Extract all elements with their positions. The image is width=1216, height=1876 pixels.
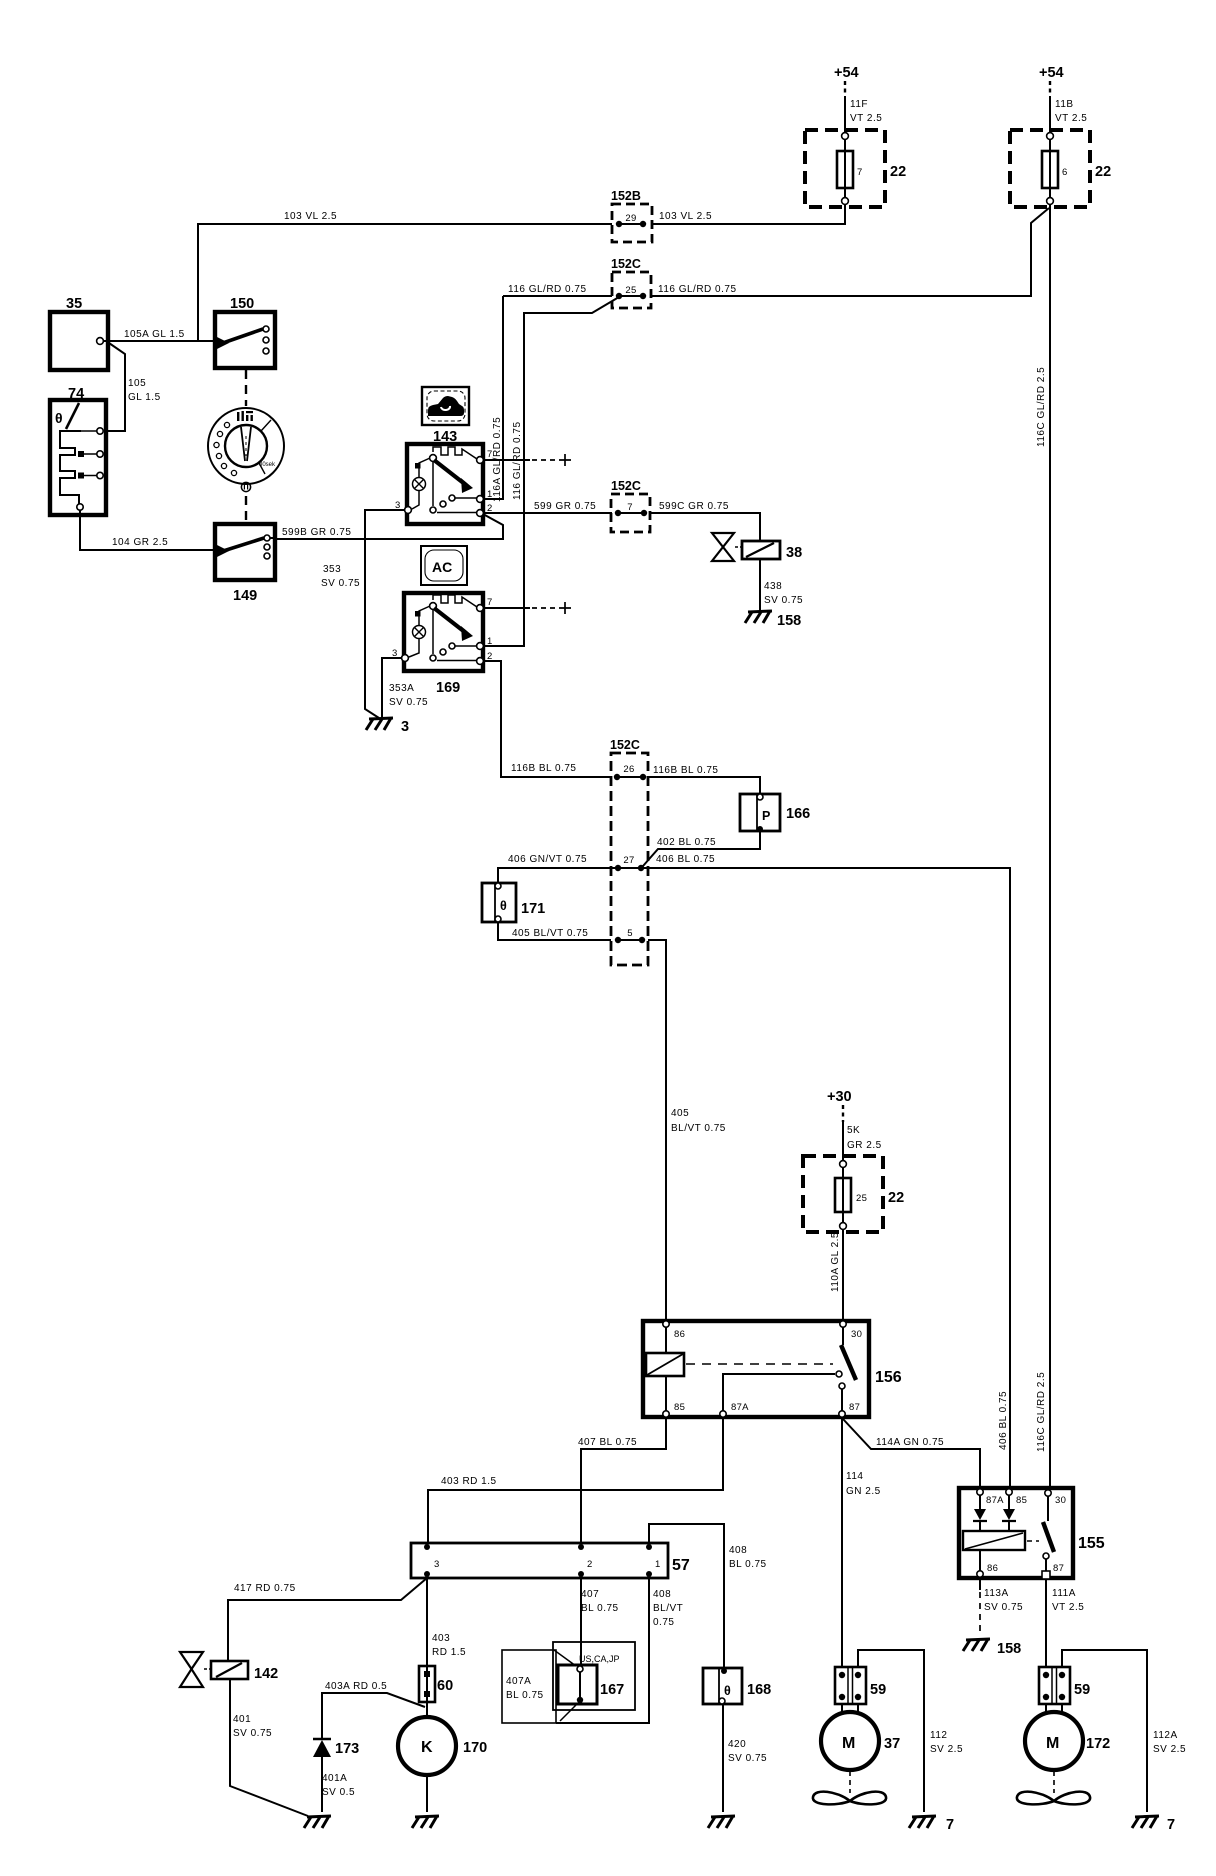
svg-text:+54: +54 bbox=[1039, 65, 1064, 81]
svg-text:87A: 87A bbox=[731, 1402, 749, 1413]
svg-text:407: 407 bbox=[581, 1589, 599, 1600]
ground 7 (right) bbox=[1132, 1816, 1175, 1833]
svg-text:405 BL/VT 0.75: 405 BL/VT 0.75 bbox=[512, 928, 588, 939]
fuse 60 bbox=[419, 1666, 453, 1702]
sensor 74 (rheostat with taps) bbox=[50, 386, 106, 515]
svg-text:401: 401 bbox=[233, 1714, 251, 1725]
connector 152C pins 26/27/5 bbox=[610, 738, 648, 965]
wire 599 GR 0.75 (143 pin 2 to 152C-7) bbox=[484, 501, 612, 513]
wire 408 BL/VT 0.75 (57 pin 1 down) bbox=[556, 1578, 683, 1723]
svg-text:57: 57 bbox=[672, 1557, 690, 1574]
wire 116A GL/RD 0.75 (to 143 pin 1) bbox=[484, 296, 503, 502]
svg-text:11B: 11B bbox=[1055, 99, 1074, 110]
switch 150 bbox=[215, 296, 275, 368]
wire 116 GL/RD 0.75 (branch to 152C-25) bbox=[651, 208, 1049, 296]
svg-text:1: 1 bbox=[487, 636, 493, 647]
svg-text:105: 105 bbox=[128, 378, 146, 389]
svg-text:403A RD 0.5: 403A RD 0.5 bbox=[325, 1681, 387, 1692]
svg-text:7: 7 bbox=[627, 502, 633, 513]
svg-text:169: 169 bbox=[436, 680, 460, 696]
ground (168) bbox=[708, 1816, 735, 1828]
wire 405 BL/VT 0.75 (152C-5 to relay 156 pin 86) bbox=[648, 940, 726, 1321]
ground 158 (relay 155) bbox=[963, 1639, 1021, 1657]
svg-text:2: 2 bbox=[587, 1559, 593, 1570]
svg-text:417 RD 0.75: 417 RD 0.75 bbox=[234, 1583, 296, 1594]
wire 114A GN 0.75 (156 pin 87 to relay 155 pin 87A) bbox=[843, 1419, 980, 1488]
svg-text:22: 22 bbox=[888, 1190, 904, 1206]
svg-text:30sek: 30sek bbox=[259, 462, 276, 468]
svg-text:599 GR 0.75: 599 GR 0.75 bbox=[534, 501, 596, 512]
wire 406 BL 0.75 (152C-27 to relay 155 pin 85) bbox=[643, 854, 1010, 1488]
svg-text:θ: θ bbox=[724, 1684, 731, 1698]
svg-text:27: 27 bbox=[623, 855, 634, 866]
svg-text:BL/VT 0.75: BL/VT 0.75 bbox=[671, 1123, 726, 1134]
svg-text:SV 0.75: SV 0.75 bbox=[764, 595, 803, 606]
svg-text:116 GL/RD 0.75: 116 GL/RD 0.75 bbox=[658, 284, 737, 295]
svg-text:M: M bbox=[842, 1735, 855, 1752]
svg-text:BL 0.75: BL 0.75 bbox=[506, 1690, 544, 1701]
svg-text:103 VL 2.5: 103 VL 2.5 bbox=[284, 211, 337, 222]
fan blade (172) bbox=[1017, 1771, 1090, 1804]
svg-text:7: 7 bbox=[1167, 1817, 1175, 1833]
svg-text:87: 87 bbox=[1053, 1563, 1064, 1574]
svg-text:60: 60 bbox=[437, 1678, 453, 1694]
pressure switch 166 bbox=[740, 794, 810, 832]
svg-text:407A: 407A bbox=[506, 1676, 531, 1687]
compressor clutch 170 (K) bbox=[398, 1717, 487, 1775]
svg-text:SV 0.75: SV 0.75 bbox=[321, 578, 360, 589]
svg-text:172: 172 bbox=[1086, 1736, 1110, 1752]
svg-text:402 BL 0.75: 402 BL 0.75 bbox=[657, 837, 716, 848]
AC icon bbox=[421, 546, 467, 585]
thermostat 168 bbox=[703, 1668, 771, 1704]
box 35 bbox=[50, 296, 108, 370]
wire 105A GL 1.5 bbox=[104, 329, 215, 341]
ground (142/173) bbox=[304, 1816, 331, 1828]
svg-text:AC: AC bbox=[432, 559, 452, 575]
svg-text:29: 29 bbox=[625, 213, 636, 224]
wire 105 GL 1.5 bbox=[105, 343, 161, 431]
svg-text:166: 166 bbox=[786, 806, 810, 822]
wire 11F VT 2.5 bbox=[845, 96, 882, 131]
svg-text:405: 405 bbox=[671, 1108, 689, 1119]
wire 420 SV 0.75 (168 to ground) bbox=[723, 1704, 767, 1812]
recirculation icon (above 143) bbox=[422, 387, 469, 425]
mechanical link (dashed) 150-dial bbox=[245, 370, 247, 406]
svg-text:116B BL 0.75: 116B BL 0.75 bbox=[653, 765, 719, 776]
wire 103 VL 2.5 (152B to switch 150) bbox=[198, 211, 612, 341]
wire 407 BL 0.75 (57 pin 2 to resistor 167) bbox=[581, 1578, 619, 1668]
svg-text:110A GL 2.5: 110A GL 2.5 bbox=[830, 1232, 841, 1292]
wire 405 BL/VT 0.75 (171 to 152C-5) bbox=[498, 922, 611, 940]
wire 408 BL 0.75 (57 pin 1 to 168) bbox=[649, 1524, 767, 1669]
svg-text:152C: 152C bbox=[610, 738, 640, 752]
svg-text:85: 85 bbox=[1016, 1495, 1027, 1506]
svg-text:25: 25 bbox=[856, 1193, 867, 1204]
wire 403A RD 0.5 (to diode 173) bbox=[322, 1681, 425, 1738]
wire 11B VT 2.5 bbox=[1050, 96, 1087, 131]
svg-text:156: 156 bbox=[875, 1369, 902, 1386]
svg-text:173: 173 bbox=[335, 1741, 359, 1757]
svg-text:408: 408 bbox=[653, 1589, 671, 1600]
wire 401A SV 0.5 (173 to ground) bbox=[322, 1757, 355, 1812]
wire 599C GR 0.75 (to valve 38) bbox=[650, 501, 760, 541]
svg-text:5: 5 bbox=[627, 928, 633, 939]
wire 111A VT 2.5 (155 pin 87 to connector 59) bbox=[1046, 1579, 1084, 1667]
wire (K to ground) bbox=[426, 1775, 428, 1812]
svg-text:142: 142 bbox=[254, 1666, 278, 1682]
resistor 167 (US,CA,JP) with callout bbox=[502, 1642, 635, 1723]
svg-text:M: M bbox=[1046, 1735, 1059, 1752]
svg-text:SV 0.75: SV 0.75 bbox=[389, 697, 428, 708]
switch 143 (fan/recirc switch) bbox=[395, 429, 493, 524]
connector 152C pin 7 bbox=[611, 479, 650, 532]
svg-text:+54: +54 bbox=[834, 65, 859, 81]
fuse 22 (right, no.6) bbox=[1010, 130, 1111, 207]
wire 401 SV 0.75 (142 to ground) bbox=[230, 1679, 308, 1816]
svg-text:59: 59 bbox=[870, 1682, 886, 1698]
svg-text:104 GR 2.5: 104 GR 2.5 bbox=[112, 537, 168, 548]
fan motor 37 bbox=[821, 1704, 900, 1770]
switch 149 bbox=[215, 524, 275, 604]
svg-text:420: 420 bbox=[728, 1739, 746, 1750]
wire 403 RD 1.5 (156 pin 87A to 57 pin 3) bbox=[428, 1417, 723, 1543]
wire 438 SV 0.75 bbox=[760, 559, 803, 611]
svg-text:GN 2.5: GN 2.5 bbox=[846, 1486, 881, 1497]
svg-text:152C: 152C bbox=[611, 257, 641, 271]
node +54 (left supply) bbox=[834, 65, 859, 96]
svg-text:1: 1 bbox=[487, 489, 493, 500]
svg-text:86: 86 bbox=[674, 1329, 685, 1340]
relay 156 bbox=[643, 1321, 902, 1417]
wire 353 SV 0.75 (143 pin 3 to ground) bbox=[321, 510, 405, 718]
wire 406 GN/VT 0.75 (152C-27 to 171) bbox=[498, 854, 618, 884]
ground (170) bbox=[412, 1816, 439, 1828]
connector 59 (right) bbox=[1039, 1667, 1090, 1704]
svg-text:406 GN/VT 0.75: 406 GN/VT 0.75 bbox=[508, 854, 587, 865]
svg-text:30: 30 bbox=[1055, 1495, 1066, 1506]
svg-text:25: 25 bbox=[625, 285, 636, 296]
svg-text:403: 403 bbox=[432, 1633, 450, 1644]
valve 38 (vacuum solenoid) bbox=[712, 533, 802, 561]
svg-text:403 RD 1.5: 403 RD 1.5 bbox=[441, 1476, 497, 1487]
wire 110A GL 2.5 (fuse to relay 156 pin 30) bbox=[830, 1229, 843, 1321]
wire 113A SV 0.75 (155 pin 86 to ground 158) bbox=[980, 1578, 1023, 1634]
svg-text:11F: 11F bbox=[850, 99, 868, 110]
node +30 (supply) bbox=[827, 1089, 852, 1122]
svg-text:3: 3 bbox=[434, 1559, 440, 1570]
svg-text:38: 38 bbox=[786, 545, 802, 561]
svg-text:59: 59 bbox=[1074, 1682, 1090, 1698]
svg-text:K: K bbox=[421, 1739, 433, 1756]
svg-text:152C: 152C bbox=[611, 479, 641, 493]
svg-text:30: 30 bbox=[851, 1329, 862, 1340]
svg-text:401A: 401A bbox=[322, 1773, 347, 1784]
svg-text:353A: 353A bbox=[389, 683, 414, 694]
node +54 (right supply) bbox=[1039, 65, 1064, 96]
svg-text:7: 7 bbox=[946, 1817, 954, 1833]
svg-text:155: 155 bbox=[1078, 1535, 1105, 1552]
thermostat 171 bbox=[482, 883, 545, 922]
fan motor 172 bbox=[1025, 1704, 1110, 1770]
svg-text:22: 22 bbox=[890, 164, 906, 180]
svg-text:408: 408 bbox=[729, 1545, 747, 1556]
svg-text:85: 85 bbox=[674, 1402, 685, 1413]
svg-text:RD 1.5: RD 1.5 bbox=[432, 1647, 466, 1658]
wire 353A SV 0.75 (169 pin 3 to ground) bbox=[382, 658, 428, 718]
wire 114 GN 2.5 (156 pin 87 to connector 59) bbox=[842, 1417, 881, 1667]
svg-text:86: 86 bbox=[987, 1563, 998, 1574]
svg-text:406 BL 0.75: 406 BL 0.75 bbox=[998, 1391, 1009, 1450]
svg-text:VT 2.5: VT 2.5 bbox=[1052, 1602, 1084, 1613]
svg-text:SV 0.75: SV 0.75 bbox=[728, 1753, 767, 1764]
svg-text:26: 26 bbox=[623, 764, 634, 775]
svg-text:87: 87 bbox=[849, 1402, 860, 1413]
wire 103 VL 2.5 (fuse to 152B-29) bbox=[652, 204, 845, 224]
svg-text:116B BL 0.75: 116B BL 0.75 bbox=[511, 763, 577, 774]
svg-text:112: 112 bbox=[930, 1730, 947, 1741]
svg-text:152B: 152B bbox=[611, 189, 641, 203]
svg-text:SV 0.75: SV 0.75 bbox=[233, 1728, 272, 1739]
svg-text:158: 158 bbox=[997, 1641, 1021, 1657]
wire 402 BL 0.75 (166 to 152C-27) bbox=[643, 831, 760, 866]
svg-text:3: 3 bbox=[401, 719, 409, 735]
svg-text:6: 6 bbox=[1062, 167, 1068, 178]
wire 116B BL 0.75 (169 pin 2 to 152C-26) bbox=[484, 661, 611, 777]
svg-text:158: 158 bbox=[777, 613, 801, 629]
wire 407 BL 0.75 (156 pin 85 to 57 pin 2) bbox=[578, 1417, 666, 1543]
svg-text:116 GL/RD 0.75: 116 GL/RD 0.75 bbox=[508, 284, 587, 295]
svg-text:0.75: 0.75 bbox=[653, 1617, 674, 1628]
svg-text:7: 7 bbox=[857, 167, 863, 178]
svg-text:407 BL 0.75: 407 BL 0.75 bbox=[578, 1437, 637, 1448]
heater control dial bbox=[208, 408, 284, 492]
svg-text:599B GR 0.75: 599B GR 0.75 bbox=[282, 527, 351, 538]
svg-text:22: 22 bbox=[1095, 164, 1111, 180]
wire 417 RD 0.75 (57 pin 3 to valve 142) bbox=[228, 1578, 427, 1661]
valve 142 (vacuum solenoid) bbox=[180, 1652, 278, 1687]
svg-text:170: 170 bbox=[463, 1740, 487, 1756]
ground 158 (valve 38) bbox=[745, 611, 801, 629]
svg-text:149: 149 bbox=[233, 588, 257, 604]
svg-text:112A: 112A bbox=[1153, 1730, 1178, 1741]
svg-text:111A: 111A bbox=[1052, 1588, 1076, 1599]
svg-text:+30: +30 bbox=[827, 1089, 852, 1105]
svg-text:VT 2.5: VT 2.5 bbox=[850, 113, 882, 124]
svg-text:7: 7 bbox=[487, 597, 493, 608]
wire 116 GL/RD 0.75 (152C-25 to switches) bbox=[503, 284, 612, 296]
wire to + (169 pin 7) bbox=[484, 602, 571, 614]
connector 152B pin 29 bbox=[611, 189, 652, 242]
wire 403 RD 1.5 (57 pin 3 to fuse 60) bbox=[427, 1578, 466, 1717]
fan blade (37) bbox=[813, 1771, 886, 1804]
diode 173 bbox=[313, 1739, 359, 1757]
svg-text:SV 2.5: SV 2.5 bbox=[1153, 1744, 1186, 1755]
switch 169 (AC switch) bbox=[392, 593, 493, 696]
svg-text:150: 150 bbox=[230, 296, 254, 312]
svg-text:GR 2.5: GR 2.5 bbox=[847, 1140, 882, 1151]
wire 599B GR 0.75 (149 to 143 pin 2) bbox=[270, 514, 503, 539]
svg-text:116C GL/RD 2.5: 116C GL/RD 2.5 bbox=[1036, 1372, 1047, 1452]
connector 59 (left) bbox=[835, 1667, 886, 1704]
svg-text:353: 353 bbox=[323, 564, 341, 575]
svg-text:SV 0.75: SV 0.75 bbox=[984, 1602, 1023, 1613]
svg-text:438: 438 bbox=[764, 581, 782, 592]
svg-text:35: 35 bbox=[66, 296, 82, 312]
svg-text:599C GR 0.75: 599C GR 0.75 bbox=[659, 501, 729, 512]
svg-text:SV 0.5: SV 0.5 bbox=[322, 1787, 355, 1798]
svg-text:168: 168 bbox=[747, 1682, 771, 1698]
svg-text:5K: 5K bbox=[847, 1125, 860, 1136]
svg-text:1: 1 bbox=[655, 1559, 661, 1570]
svg-text:113A: 113A bbox=[984, 1588, 1009, 1599]
ground 7 (left) bbox=[909, 1816, 954, 1833]
svg-text:SV 2.5: SV 2.5 bbox=[930, 1744, 963, 1755]
wire 116 GL/RD 0.75 (to 169 pin 1) bbox=[484, 297, 619, 646]
svg-text:103 VL 2.5: 103 VL 2.5 bbox=[659, 211, 712, 222]
svg-text:P: P bbox=[762, 809, 770, 823]
relay 155 bbox=[959, 1488, 1105, 1579]
ground 3 bbox=[366, 718, 409, 735]
svg-text:VT 2.5: VT 2.5 bbox=[1055, 113, 1087, 124]
wire 5K GR 2.5 bbox=[843, 1122, 882, 1157]
wire 112A SV 2.5 (172 to ground 7) bbox=[1062, 1650, 1186, 1812]
svg-text:105A GL 1.5: 105A GL 1.5 bbox=[124, 329, 185, 340]
svg-text:87A: 87A bbox=[986, 1495, 1004, 1506]
svg-text:167: 167 bbox=[600, 1682, 624, 1698]
wire 104 GR 2.5 bbox=[80, 510, 215, 550]
svg-text:37: 37 bbox=[884, 1736, 900, 1752]
svg-text:114A GN 0.75: 114A GN 0.75 bbox=[876, 1437, 944, 1448]
svg-text:406 BL 0.75: 406 BL 0.75 bbox=[656, 854, 715, 865]
fuse 22 (no.25) bbox=[803, 1156, 904, 1232]
svg-text:114: 114 bbox=[846, 1471, 863, 1482]
fuse 22 (left, no.7) bbox=[805, 130, 906, 207]
svg-text:7: 7 bbox=[487, 449, 493, 460]
wire 116C GL/RD 2.5 (fuse to relay 155 pin 30) bbox=[1036, 204, 1050, 1488]
wire to + (143 pin 7) bbox=[484, 454, 571, 466]
connector 152C pin 25 bbox=[611, 257, 651, 308]
wire 112 SV 2.5 (37 to ground 7) bbox=[858, 1650, 963, 1812]
mechanical link (dashed) dial-149 bbox=[245, 496, 247, 523]
svg-text:BL 0.75: BL 0.75 bbox=[729, 1559, 767, 1570]
connector 57 bbox=[411, 1543, 690, 1578]
svg-text:US,CA,JP: US,CA,JP bbox=[579, 1654, 620, 1664]
svg-text:θ: θ bbox=[55, 410, 63, 426]
svg-text:BL 0.75: BL 0.75 bbox=[581, 1603, 619, 1614]
svg-text:171: 171 bbox=[521, 901, 545, 917]
svg-text:θ: θ bbox=[500, 899, 507, 913]
svg-text:116C GL/RD 2.5: 116C GL/RD 2.5 bbox=[1036, 367, 1047, 447]
svg-text:BL/VT: BL/VT bbox=[653, 1603, 683, 1614]
wire 116B BL 0.75 (152C-26 to 166) bbox=[648, 765, 760, 795]
svg-text:GL 1.5: GL 1.5 bbox=[128, 392, 161, 403]
